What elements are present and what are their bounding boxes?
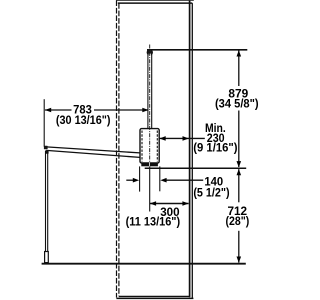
rail level reference line bbox=[145, 167, 247, 169]
extension lines 140 bbox=[140, 166, 160, 191]
floor reference line bbox=[42, 263, 246, 265]
svg-text:(5 1/2"): (5 1/2") bbox=[193, 186, 229, 199]
pivot circle at rod top bbox=[147, 49, 153, 55]
mechanism inner dashed lines bbox=[142, 131, 157, 162]
dimension 879 arrows bbox=[237, 50, 242, 56]
cabinet top edge (double line) bbox=[116, 0, 194, 3]
handle lower ferrule bbox=[45, 252, 49, 263]
extension line left (783) bbox=[43, 99, 45, 146]
dimension 300 line bbox=[150, 203, 189, 205]
hanging handle (double line) bbox=[46, 151, 48, 253]
cabinet back panel (double line) bbox=[190, 0, 193, 298]
centerline solid extension below body bbox=[149, 163, 151, 212]
cabinet bottom edge (double line) bbox=[116, 296, 193, 298]
centerline (dash-dot) through rod and body bbox=[149, 45, 151, 164]
arm end knob lower bbox=[45, 150, 48, 153]
pull-down arm (two lines) bbox=[46, 147, 140, 158]
dimension 712 vertical line bbox=[238, 169, 240, 262]
mechanism foot bbox=[141, 163, 158, 167]
svg-text:(28"): (28") bbox=[226, 215, 250, 228]
dimension Min.230 line bbox=[159, 137, 204, 139]
dimension 140 line with outside arrows bbox=[126, 179, 203, 181]
svg-text:(11 13/16"): (11 13/16") bbox=[126, 216, 181, 229]
dimension 712 arrows bbox=[237, 169, 242, 175]
dimension Min.230 arrows bbox=[159, 136, 165, 141]
svg-text:(30 13/16"): (30 13/16") bbox=[56, 114, 111, 127]
svg-text:(34 5/8"): (34 5/8") bbox=[215, 98, 259, 111]
dimension 879 vertical line bbox=[238, 50, 240, 167]
arm end knob upper bbox=[44, 146, 48, 150]
cabinet front door plane (dashed double line) bbox=[117, 0, 119, 297]
dimension 783 arrows bbox=[45, 108, 51, 113]
top mounting level line bbox=[147, 49, 247, 51]
svg-text:(9 1/16"): (9 1/16") bbox=[193, 141, 237, 154]
dimension 300 arrows bbox=[150, 201, 156, 206]
dimension 783 line bbox=[45, 109, 149, 111]
mechanism body bbox=[140, 129, 159, 163]
dimension 140 arrows bbox=[133, 178, 139, 183]
vertical rod (double line) bbox=[148, 50, 152, 130]
